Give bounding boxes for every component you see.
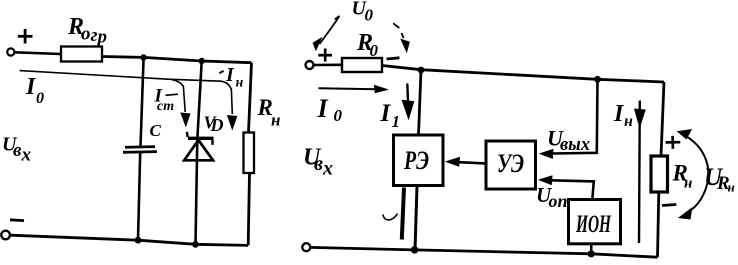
svg-text:УЭ: УЭ [497,149,524,178]
label RE [403,146,429,175]
arrow In (right) [634,101,646,244]
wire bottom rail right circuit [310,247,658,257]
node B junction dot [594,76,601,83]
node: junction dot ION bottom [588,250,595,257]
arrow I1 [402,84,415,121]
svg-text:ст: ст [157,99,174,114]
svg-text:вх: вх [314,153,333,180]
wire R_n bottom to rail corner [658,192,659,257]
terminal (bottom input right) [302,243,310,251]
wire node A down to RE [419,70,422,135]
label U_vyh [547,126,590,156]
wire terminal to R_ogr [14,52,61,54]
svg-text:н: н [728,180,735,195]
resistor R_0 [342,58,382,72]
arrow I0 (right) [319,85,390,93]
arrowhead U_vyh into UE [539,149,554,159]
wire terminal to R_0 [314,64,343,67]
current annotation line I0 splitting to Ist and In [20,71,233,114]
svg-text:вх: вх [13,140,32,166]
svg-text:I: I [225,64,235,86]
label U_vx (left) [2,134,32,166]
label I0 (right) [317,94,343,125]
wire right side down to R_n [249,63,252,133]
arrowhead U_op into UE [538,175,553,185]
svg-text:ИОН: ИОН [575,211,612,238]
wire bottom rail left circuit [11,235,249,245]
svg-text:0: 0 [365,6,374,25]
label C [150,121,162,140]
plus polarity mark (left input) [18,29,33,44]
block UE (amplifier element) [486,141,536,189]
label R_n (left) [257,95,281,130]
label U_0 [352,0,374,24]
label I1 [380,100,401,131]
wire U_op from ION to UE [551,180,594,199]
label R_0 [356,30,379,60]
node: junction dot VD branch [199,58,205,64]
node: junction dot capacitor branch [140,54,146,60]
label In (left) [219,64,243,91]
plus polarity mark (R_n right) [666,136,681,149]
svg-text:н: н [684,176,692,192]
wire RE bottom to rail [415,186,417,250]
node: junction dot capacitor bottom [135,237,142,244]
resistor R_n (right load) [651,156,668,192]
terminal + (top input right) [306,61,314,69]
label In (right) [613,101,633,130]
plus polarity mark (right input) [318,49,332,62]
label U_Rn [704,164,735,195]
label I0 (left) [25,74,44,107]
node: junction dot VD bottom [192,241,199,248]
minus polarity mark (R_n right) [662,205,676,206]
label VD [204,113,224,136]
wire top rail right circuit [382,66,664,83]
svg-text:0: 0 [36,90,44,107]
wire below R_n [248,173,249,245]
svg-text:0: 0 [334,106,343,125]
dashed arc U_0 right part [393,23,403,38]
svg-text:D: D [210,115,224,135]
node: junction dot RE bottom [411,246,419,254]
resistor R_ogr [61,47,102,62]
label R_ogr [67,14,107,48]
svg-text:C: C [150,121,162,140]
wire capacitor branch upper [141,58,144,147]
wire ION bottom to rail [590,244,593,254]
arrow UE to RE [445,157,486,167]
svg-text:н: н [271,111,280,130]
wire capacitor branch lower [138,152,140,240]
label ION [575,211,612,238]
capacitor C plates [123,147,157,153]
block RE (regulating element) [394,135,444,186]
wire U_vyh sense from node B to UE [552,79,598,153]
label R_n (right) [672,161,693,192]
svg-text:РЭ: РЭ [403,146,429,175]
arrowhead Ist [180,113,190,128]
svg-text:I: I [380,100,392,127]
zener diode VD [184,132,213,161]
svg-text:I: I [317,94,329,123]
svg-text:огр: огр [81,24,107,48]
arrowhead In (left) [227,115,238,131]
label U_vx (right) [303,145,333,180]
wire top rail corner down to R_n (right) [661,82,664,156]
wire top rail left circuit [102,57,252,63]
wire RE bottom thick stub [402,188,404,240]
svg-text:0: 0 [370,41,379,60]
minus polarity mark (left input) [10,218,24,222]
stray mark near RE bottom [383,214,398,220]
current branch line Ist [172,80,186,113]
svg-text:оп: оп [549,191,568,211]
label Ist [154,86,179,115]
label UE [497,149,524,178]
curved arrow U_Rn [677,129,709,220]
svg-text:вых: вых [560,134,590,155]
block ION (reference voltage source) [569,200,621,244]
svg-text:н: н [624,113,633,130]
minus mark after R_0 [387,58,400,59]
arrowhead U_0 right [400,39,410,54]
resistor R_n (left load) [244,133,255,174]
svg-text:н: н [236,76,244,91]
dashed arc U_0 left part [320,16,340,44]
node A junction dot [418,67,425,74]
label U_op [536,183,568,211]
wire VD branch upper [196,61,202,244]
arrowhead U_0 left [313,37,323,52]
svg-text:1: 1 [392,112,401,131]
terminal + (top-left input) [7,48,14,55]
terminal - (bottom-left input) [1,231,10,240]
